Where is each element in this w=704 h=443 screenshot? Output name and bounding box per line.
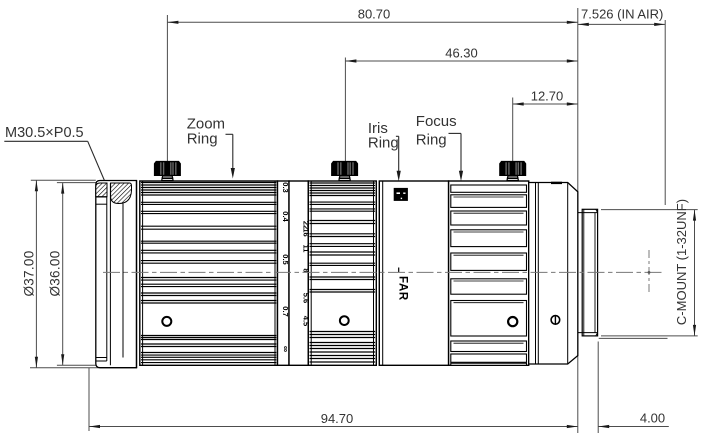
- svg-text:80.70: 80.70: [358, 7, 391, 22]
- rear set screw (slotted): [551, 316, 560, 325]
- dimension 7.526 (IN AIR): [578, 7, 665, 434]
- svg-text:94.70: 94.70: [321, 411, 354, 426]
- svg-text:C-MOUNT (1-32UNF): C-MOUNT (1-32UNF): [674, 199, 689, 325]
- svg-text:4.00: 4.00: [640, 411, 665, 426]
- front filter rim barrel: [96, 181, 137, 368]
- dimension 12.70: [513, 89, 578, 162]
- dimension 94.70: [89, 368, 578, 432]
- svg-text:Ring: Ring: [368, 135, 399, 152]
- svg-text:Ring: Ring: [187, 131, 218, 148]
- zoom ring set-screw hole: [162, 317, 171, 326]
- svg-text:12.70: 12.70: [531, 89, 564, 104]
- filter thread hatched section (right patch): [111, 183, 132, 204]
- focus distance scale band: [278, 181, 292, 365]
- iris ring set-screw hole: [340, 316, 349, 325]
- zoom ring thumbscrew: [154, 161, 181, 181]
- FAR engraving: [397, 268, 409, 301]
- iris ring thumbscrew: [331, 161, 358, 181]
- label Focus Ring: [416, 113, 463, 181]
- focus ring (ribbed): [449, 181, 529, 365]
- svg-text:46.30: 46.30: [445, 46, 478, 61]
- iris ring (knurled): [308, 181, 376, 365]
- label Zoom Ring: [187, 116, 235, 179]
- svg-text:FAR: FAR: [397, 276, 409, 301]
- svg-text:Focus: Focus: [416, 113, 457, 130]
- mid barrel section: [379, 181, 448, 365]
- image plane centerline cross: [648, 250, 651, 293]
- label Iris Ring: [368, 120, 401, 181]
- svg-text:Ø37.00: Ø37.00: [22, 250, 37, 296]
- filter thread hatched section (left patch): [96, 183, 107, 197]
- dimension 80.70: [167, 7, 577, 177]
- dimension Ø36.00: [48, 183, 96, 366]
- focus ring set-screw hole: [508, 317, 517, 326]
- dimension 46.30: [345, 46, 577, 162]
- svg-text:Ø36.00: Ø36.00: [48, 250, 63, 296]
- C-mount thread (1-32UNF): [578, 209, 598, 336]
- svg-text:Ring: Ring: [416, 132, 447, 149]
- optical axis centerline: [103, 271, 664, 273]
- svg-text:M30.5×P0.5: M30.5×P0.5: [5, 125, 84, 141]
- dimension C-MOUNT (1-32UNF): [599, 199, 698, 338]
- label M30.5×P0.5: [4, 125, 110, 195]
- dimension 4.00: [598, 342, 669, 434]
- svg-text:7.526 (IN AIR): 7.526 (IN AIR): [581, 7, 663, 22]
- focus ring thumbscrew: [499, 161, 526, 181]
- dimension Ø37.00: [22, 180, 138, 368]
- rear barrel with chamfer to flange: [529, 183, 578, 365]
- rear barrel index tick: [551, 182, 562, 184]
- aperture scale band: [289, 181, 310, 365]
- index marker plate (black): [394, 188, 408, 201]
- zoom ring (knurled): [140, 181, 278, 365]
